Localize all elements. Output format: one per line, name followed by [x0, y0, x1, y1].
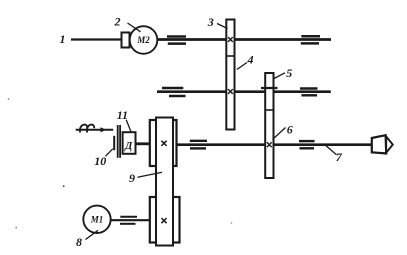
leader 2 — [128, 23, 141, 32]
svg-text:М1: М1 — [90, 215, 104, 225]
gear block 9 upper gear — [150, 120, 177, 166]
node x block 9 lower — [161, 218, 166, 223]
node x gear 4 — [228, 89, 233, 94]
gear 5-6 column — [265, 73, 273, 178]
scan speck 4 — [8, 98, 10, 100]
leader 11 — [126, 120, 131, 132]
svg-text:Д: Д — [124, 141, 133, 152]
bearing B (shaft I right end) — [301, 36, 320, 43]
node x gear 3 — [228, 37, 233, 42]
svg-text:6: 6 — [287, 123, 293, 137]
bearing E (output shaft after block 9) — [190, 141, 207, 149]
gear 5 hub bar — [261, 87, 278, 89]
leader 8 — [86, 230, 99, 239]
svg-text:7: 7 — [336, 150, 343, 164]
leader 3 — [217, 24, 228, 29]
wire shaft I left segment — [71, 38, 122, 40]
gear 3-4 column — [226, 20, 234, 130]
leader 10 — [106, 149, 113, 156]
gear 3/4 divider — [226, 55, 234, 57]
motor M2 — [130, 26, 158, 54]
scan speck 3 — [231, 222, 233, 224]
bearing F (output shaft before tool) — [299, 141, 315, 148]
svg-text:1: 1 — [60, 32, 66, 46]
clutch half bar 10 — [113, 136, 115, 150]
wire shaft II — [157, 90, 331, 93]
svg-text:4: 4 — [247, 53, 254, 67]
scan speck 1 — [63, 185, 65, 187]
wire shaft I right segment — [157, 38, 331, 41]
spring coil on input shaft — [80, 125, 94, 133]
bearing D (shaft II right end) — [300, 89, 318, 96]
gear 5/6 divider — [265, 109, 273, 111]
leader 5 — [274, 73, 285, 79]
wire link D-box to block 9 — [136, 142, 151, 145]
svg-text:10: 10 — [94, 154, 106, 168]
svg-text:2: 2 — [114, 15, 121, 29]
wire motor M1 shaft — [111, 219, 151, 221]
tool holder quad — [372, 135, 386, 153]
device D box — [123, 132, 136, 154]
node x gear 6 — [267, 142, 272, 147]
motor M2 coupling box — [122, 33, 130, 48]
tool tip triangle — [386, 137, 393, 153]
node x block 9 upper — [161, 141, 166, 146]
leader 9 — [138, 172, 163, 177]
svg-text:5: 5 — [286, 66, 292, 80]
wire output shaft IV — [150, 143, 372, 146]
leader 6 — [273, 128, 286, 140]
svg-text:9: 9 — [129, 171, 135, 185]
wire input shaft to clutch — [76, 129, 114, 131]
leader 4 — [237, 63, 247, 70]
svg-text:8: 8 — [76, 235, 82, 249]
clutch disc pair — [118, 125, 120, 158]
bearing G (motor M1 shaft) — [120, 217, 137, 224]
scan speck 2 — [15, 227, 17, 229]
leader 7 — [326, 146, 337, 155]
bearing A (shaft I after M2) — [167, 37, 186, 44]
svg-text:3: 3 — [207, 15, 214, 29]
svg-text:М2: М2 — [136, 35, 150, 45]
gear block 9 sleeve column — [156, 118, 173, 246]
arrow on input shaft — [101, 127, 107, 132]
bearing C (shaft II left end) — [162, 88, 186, 96]
motor M1 — [83, 206, 110, 233]
gear block 9 lower gear — [150, 197, 180, 243]
